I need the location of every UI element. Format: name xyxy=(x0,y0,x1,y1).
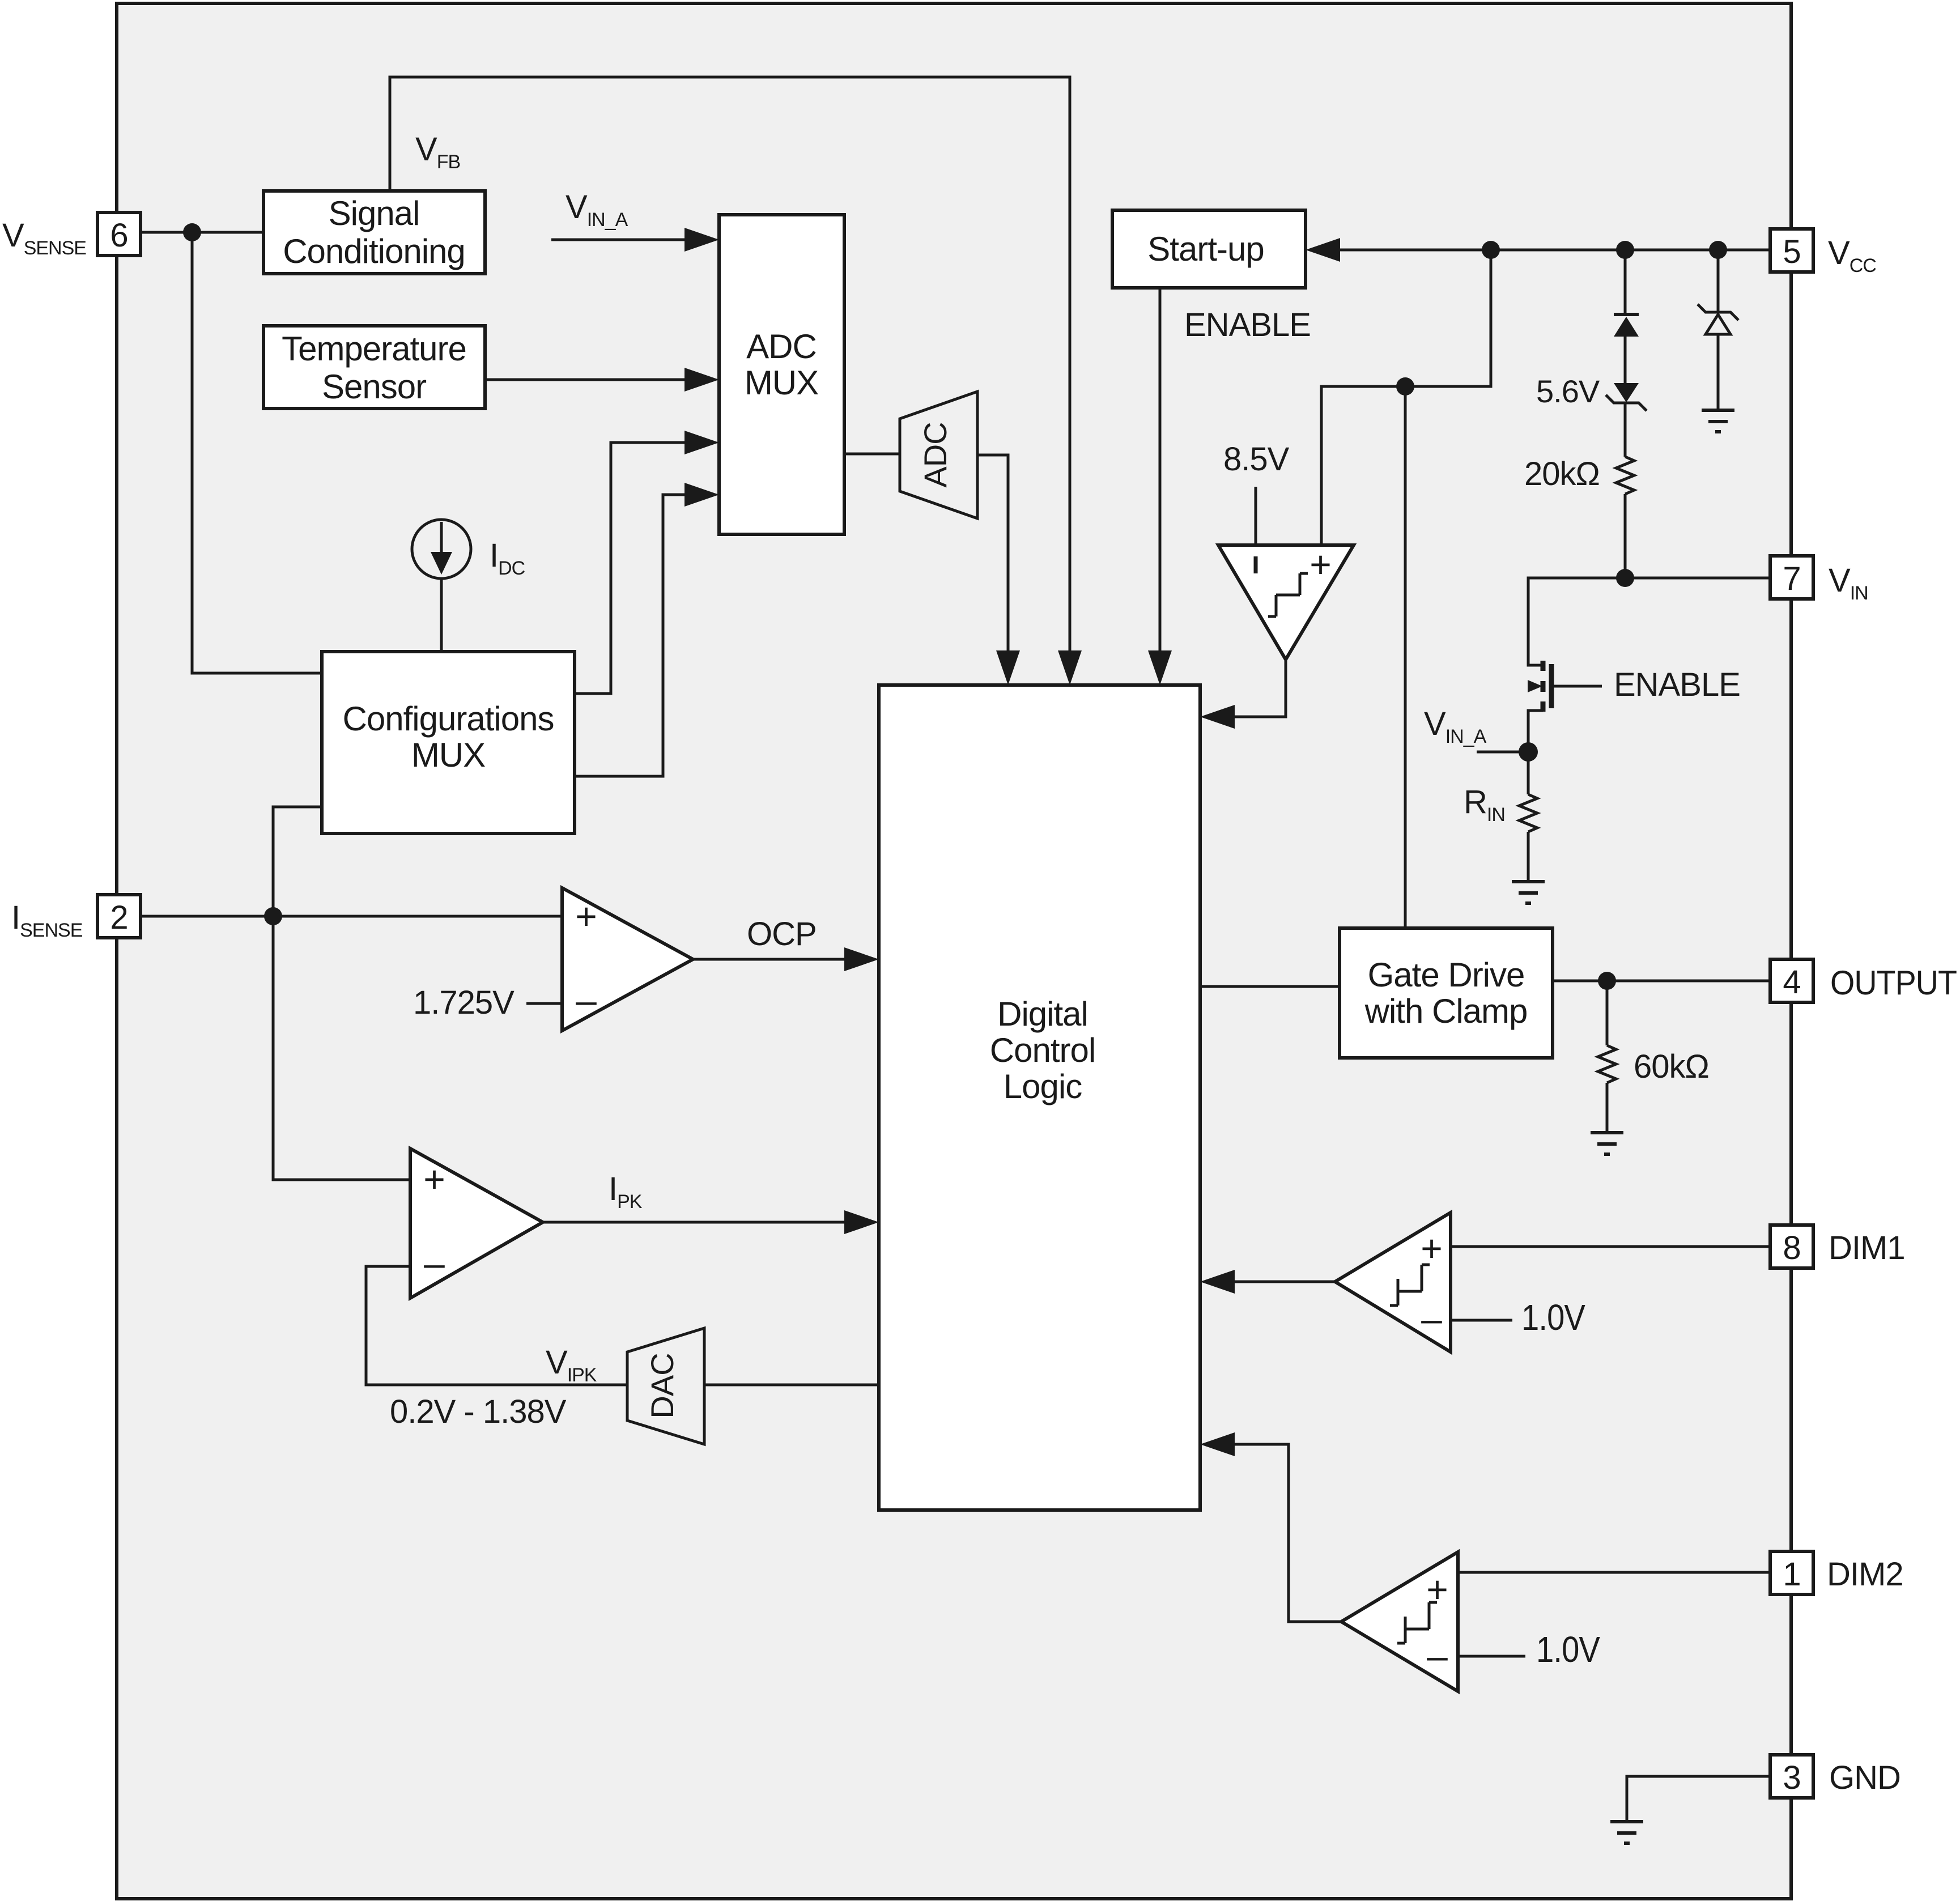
arrow 8.5V comparator into DCL xyxy=(1200,705,1235,729)
wire DIM1 plus input from pin8 xyxy=(1451,1245,1770,1248)
svg-text:Temperature: Temperature xyxy=(282,330,466,368)
svg-text:Gate Drive: Gate Drive xyxy=(1368,956,1525,994)
junction node on ISENSE xyxy=(264,907,282,925)
op-amp OCP comparator xyxy=(562,888,693,1031)
hysteresis glyph DIM1 xyxy=(1390,1265,1430,1305)
arrow DIM2 into DCL xyxy=(1200,1432,1235,1456)
op-amp IPK comparator xyxy=(410,1149,543,1298)
svg-text:–: – xyxy=(576,979,597,1021)
resistor 20k xyxy=(1616,457,1634,494)
wire Temperature Sensor to ADC MUX xyxy=(485,379,700,381)
wire Configurations MUX output B to ADC MUX xyxy=(575,495,700,776)
block ADC MUX xyxy=(719,215,844,534)
wire GND pin3 to ground symbol xyxy=(1627,1776,1770,1822)
diode D1 xyxy=(1614,313,1639,316)
wire 60k resistor top xyxy=(1606,981,1609,1045)
svg-text:–: – xyxy=(424,1242,445,1284)
zener diode at VCC xyxy=(1698,304,1738,320)
svg-text:OUTPUT: OUTPUT xyxy=(1830,964,1957,1002)
svg-text:ENABLE: ENABLE xyxy=(1614,666,1740,703)
svg-text:+: + xyxy=(423,1158,445,1200)
svg-text:Start-up: Start-up xyxy=(1147,230,1264,268)
block Start-up xyxy=(1112,210,1306,288)
block Digital Control Logic xyxy=(879,685,1200,1510)
svg-text:VCC: VCC xyxy=(1828,235,1876,277)
svg-text:1.0V: 1.0V xyxy=(1536,1629,1600,1670)
block Signal Conditioning xyxy=(263,191,485,274)
resistor RIN xyxy=(1519,794,1537,832)
hysteresis glyph 8.5V comparator xyxy=(1268,573,1308,616)
arrow Config output B into ADC MUX xyxy=(684,483,719,507)
svg-text:3: 3 xyxy=(1783,1759,1800,1796)
arrow VCC into Start-up xyxy=(1306,238,1340,262)
wire VIN line pin7 to MOSFET drain xyxy=(1528,578,1770,665)
pin 4 box xyxy=(1770,959,1813,1002)
junction node VIN at diode chain xyxy=(1616,569,1634,587)
op-amp 8.5V comparator xyxy=(1218,545,1354,660)
wire OCP output to DCL xyxy=(693,958,860,961)
resistor 60k xyxy=(1598,1045,1616,1083)
svg-text:Configurations: Configurations xyxy=(343,700,554,738)
wire DIM1 1.0V reference xyxy=(1451,1319,1512,1322)
ground at RIN xyxy=(1512,882,1545,903)
wire 8.5V comparator output to DCL xyxy=(1219,660,1286,717)
arrow Temperature Sensor into ADC MUX xyxy=(684,368,719,392)
svg-text:4: 4 xyxy=(1783,964,1800,1001)
transistor Q1 body arrow xyxy=(1528,680,1542,692)
wire DIM2 plus input from pin1 xyxy=(1458,1571,1770,1574)
svg-text:ENABLE: ENABLE xyxy=(1184,307,1311,343)
svg-text:Signal: Signal xyxy=(329,194,420,232)
wire IPK inverting input to DAC output xyxy=(366,1266,627,1385)
wire ENABLE from Start-up to DCL xyxy=(1159,288,1162,666)
svg-text:5: 5 xyxy=(1783,233,1800,270)
wire MOSFET source to RIN xyxy=(1528,711,1543,794)
svg-text:OCP: OCP xyxy=(747,916,817,952)
wire OUTPUT net Gate Drive to pin4 xyxy=(1553,980,1770,983)
op-amp DIM2 comparator xyxy=(1341,1552,1458,1691)
wire ISENSE branch to Configurations MUX xyxy=(273,807,322,916)
arrow VFB into DCL xyxy=(1058,650,1082,685)
wire RIN to ground xyxy=(1527,832,1530,882)
svg-text:ADC: ADC xyxy=(746,328,817,365)
wire 8.5V reference stub xyxy=(1255,487,1257,545)
hysteresis glyph DIM2 xyxy=(1397,1602,1437,1643)
zener diode 5.6V xyxy=(1614,383,1639,402)
svg-text:ISENSE: ISENSE xyxy=(11,899,83,941)
junction node VCC at zener xyxy=(1709,241,1727,259)
svg-text:1.0V: 1.0V xyxy=(1521,1297,1585,1338)
svg-text:DIM2: DIM2 xyxy=(1827,1556,1903,1593)
svg-text:VIN: VIN xyxy=(1829,562,1868,604)
pin 7 box xyxy=(1770,556,1813,599)
junction node ENABLE xyxy=(1396,377,1414,395)
svg-text:–: – xyxy=(1421,1298,1442,1339)
junction node VIN_A xyxy=(1519,742,1538,762)
pin 6 box xyxy=(97,212,141,256)
minus sign 8.5V comparator xyxy=(1254,556,1258,573)
wire VIN_A stub xyxy=(1477,751,1528,754)
transistor Q1 MOSFET gate bar xyxy=(1549,664,1554,708)
wire VCC drop to 8.5V comparator plus input xyxy=(1321,250,1491,545)
svg-text:6: 6 xyxy=(110,217,127,254)
wire ISENSE branch to IPK comparator xyxy=(273,916,410,1180)
ground at VCC zener xyxy=(1702,410,1734,432)
block Configurations MUX xyxy=(322,652,575,833)
svg-text:Control: Control xyxy=(990,1031,1095,1069)
svg-text:VSENSE: VSENSE xyxy=(2,217,86,259)
wire DIM1 output to DCL xyxy=(1219,1281,1335,1283)
op-amp DIM1 comparator xyxy=(1335,1213,1451,1352)
wire Configurations MUX output A to ADC MUX xyxy=(575,443,700,694)
transistor Q1 MOSFET channel xyxy=(1541,661,1546,712)
ground at 60k xyxy=(1591,1133,1623,1154)
svg-text:+: + xyxy=(1309,543,1331,585)
wire VIN_A into ADC MUX xyxy=(551,239,700,241)
wire ENABLE branch down to Gate Drive xyxy=(1404,386,1407,928)
svg-text:Digital: Digital xyxy=(997,995,1088,1033)
pin 2 box xyxy=(97,895,141,938)
block Temperature Sensor xyxy=(263,326,485,409)
wire zener branch xyxy=(1717,250,1720,312)
svg-text:MUX: MUX xyxy=(411,736,485,774)
pin 8 box xyxy=(1770,1225,1813,1268)
svg-text:–: – xyxy=(1427,1635,1448,1677)
block Gate Drive with Clamp xyxy=(1340,928,1553,1058)
wire VFB net from Signal Conditioning to Digital Control Logic xyxy=(390,77,1070,666)
wire DAC input from DCL xyxy=(704,1384,879,1387)
svg-text:Logic: Logic xyxy=(1004,1068,1082,1105)
wire 60k resistor to ground xyxy=(1606,1083,1609,1133)
svg-text:5.6V: 5.6V xyxy=(1536,373,1600,409)
svg-text:2: 2 xyxy=(110,899,127,936)
svg-text:7: 7 xyxy=(1783,560,1800,597)
arrow ADC output into DCL xyxy=(996,650,1020,685)
svg-text:8.5V: 8.5V xyxy=(1223,441,1290,478)
svg-text:Sensor: Sensor xyxy=(322,368,426,406)
trapezoid DAC xyxy=(627,1328,704,1444)
junction node VCC at 2631 xyxy=(1482,241,1500,259)
svg-text:Conditioning: Conditioning xyxy=(283,232,465,270)
arrow OCP into DCL xyxy=(844,947,879,971)
svg-text:ADC: ADC xyxy=(917,422,953,487)
arrow DIM1 into DCL xyxy=(1200,1270,1235,1294)
svg-text:8: 8 xyxy=(1783,1230,1800,1266)
arrow IPK into DCL xyxy=(844,1210,879,1234)
arrow ENABLE into DCL xyxy=(1148,650,1172,685)
wire 1.725V to OCP inverting input xyxy=(526,1002,562,1005)
arrow VIN_A into ADC MUX xyxy=(684,228,719,252)
wire ADC MUX to ADC xyxy=(844,453,900,456)
svg-text:60kΩ: 60kΩ xyxy=(1634,1048,1709,1085)
pin 3 box xyxy=(1770,1755,1813,1798)
junction node OUTPUT xyxy=(1598,972,1616,990)
wire ADC output to DCL xyxy=(977,455,1008,666)
junction node on VSENSE xyxy=(183,223,201,241)
svg-text:MUX: MUX xyxy=(745,364,818,402)
svg-text:+: + xyxy=(575,895,597,937)
junction node VCC at diode chain xyxy=(1616,241,1634,259)
svg-text:DAC: DAC xyxy=(644,1353,680,1418)
wire VCC line pin5 to Start-up xyxy=(1325,249,1770,252)
pin 1 box xyxy=(1770,1551,1813,1594)
wire MOSFET gate to ENABLE label xyxy=(1551,685,1602,688)
arrow Config output A into ADC MUX xyxy=(684,431,719,454)
wire DIM2 output to DCL xyxy=(1219,1444,1341,1622)
wire IPK output to DCL xyxy=(543,1221,860,1224)
svg-text:1: 1 xyxy=(1783,1556,1800,1593)
svg-text:0.2V - 1.38V: 0.2V - 1.38V xyxy=(390,1393,567,1430)
svg-text:GND: GND xyxy=(1829,1759,1901,1796)
wire DCL to Gate Drive xyxy=(1200,985,1340,988)
svg-text:DIM1: DIM1 xyxy=(1829,1230,1905,1266)
svg-text:+: + xyxy=(1421,1227,1442,1269)
wire DIM2 1.0V reference xyxy=(1458,1655,1525,1658)
wire VSENSE branch to Configurations MUX xyxy=(192,232,322,673)
svg-text:1.725V: 1.725V xyxy=(413,984,515,1021)
svg-text:with Clamp: with Clamp xyxy=(1364,992,1528,1030)
wire ISENSE pin2 to OCP comparator xyxy=(141,915,562,918)
pin 5 box xyxy=(1770,229,1813,272)
current source IDC xyxy=(412,520,471,579)
trapezoid ADC xyxy=(900,392,977,518)
wire VSENSE pin6 to Signal Conditioning xyxy=(141,231,263,234)
svg-text:20kΩ: 20kΩ xyxy=(1524,456,1600,492)
wire diode chain segments xyxy=(1624,250,1627,315)
wire IDC source to Configurations MUX xyxy=(440,579,443,652)
ground at GND pin xyxy=(1610,1822,1643,1843)
